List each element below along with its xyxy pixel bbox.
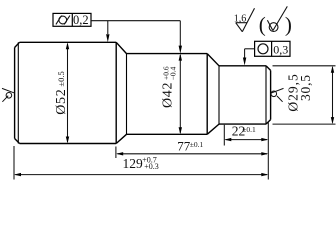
cylinder 3 top-right chamfer xyxy=(266,66,271,71)
cylinder 1 right shoulder face xyxy=(115,42,117,143)
rest-of-surfaces symbol with circle xyxy=(267,6,287,31)
roughness machining symbol xyxy=(236,8,255,31)
dimension line D42 xyxy=(179,55,181,133)
svg-text:Ø42: Ø42 xyxy=(160,82,175,108)
arrowhead D30.5 top xyxy=(331,66,334,73)
arrowhead 129 right xyxy=(261,173,268,176)
cylinder 1 left end face xyxy=(14,48,16,139)
dimension line 129 xyxy=(15,174,267,176)
arrowhead 22 left xyxy=(224,138,231,141)
arrowhead 77 left xyxy=(116,152,123,155)
cylinder 3 bottom edge xyxy=(219,123,266,125)
cylinder 2 bottom edge xyxy=(127,133,208,135)
svg-text:129: 129 xyxy=(123,156,144,171)
circularity tolerance frame xyxy=(255,41,290,56)
arrowhead D30.5 bottom xyxy=(331,117,334,124)
cylindricity tolerance frame xyxy=(53,13,91,26)
cylinder 2 right shoulder face xyxy=(206,54,208,135)
cylinder 3 chamfer edge line xyxy=(265,66,267,124)
cone 2-3 top slant xyxy=(207,54,219,66)
cylinder 1 bottom-left chamfer xyxy=(15,139,20,144)
extension line right common xyxy=(267,122,269,180)
svg-text:0,2: 0,2 xyxy=(73,13,89,27)
cone 1-2 top slant xyxy=(116,42,126,53)
extension line left of 22 dim xyxy=(223,125,225,146)
svg-text:0,3: 0,3 xyxy=(273,42,288,56)
arrowhead 22 right xyxy=(261,138,268,141)
svg-text:): ) xyxy=(285,12,292,36)
roughness symbol on left end face xyxy=(2,88,15,101)
svg-text:±0.1: ±0.1 xyxy=(242,125,256,134)
arrowhead 77 right xyxy=(261,152,268,155)
arrowhead D52 top xyxy=(66,42,69,49)
cylinder 1 top edge xyxy=(20,41,117,43)
svg-text:±0.1: ±0.1 xyxy=(190,140,204,149)
leader arrowhead on cylinder 1 xyxy=(106,34,109,42)
dimension text D29.5 xyxy=(285,73,300,111)
cylinder 1 top-left chamfer xyxy=(15,42,20,47)
cylinder 1 bottom edge xyxy=(20,143,117,145)
svg-text:30,5: 30,5 xyxy=(298,74,313,101)
arrowhead D42 bottom xyxy=(179,127,182,134)
svg-text:−0.4: −0.4 xyxy=(168,66,177,80)
leader arrowhead on cylinder 2 xyxy=(179,46,182,54)
dimension line D30.5 xyxy=(332,67,334,122)
extension line bottom right D30.5 xyxy=(273,123,336,125)
circularity leader xyxy=(245,49,255,58)
cylinder 3 left edge line xyxy=(218,66,220,124)
cylinder 3 bottom-right chamfer xyxy=(266,120,271,125)
cylinder 3 right end face xyxy=(270,70,272,119)
cylinder 1 chamfer edge line xyxy=(17,42,19,143)
cone 2-3 bottom slant xyxy=(207,124,219,134)
cylindricity symbol xyxy=(56,16,70,25)
cylinder 3 top edge xyxy=(219,65,266,67)
cylinder 2 left edge line xyxy=(126,54,128,135)
extension line left of 129 dim xyxy=(13,146,15,180)
svg-text:(: ( xyxy=(259,12,266,36)
svg-text:Ø52: Ø52 xyxy=(54,89,69,115)
svg-text:+0.3: +0.3 xyxy=(144,162,159,171)
arrowhead 129 left xyxy=(14,173,21,176)
dimension line 22 xyxy=(226,139,268,141)
extension line left of 77 dim xyxy=(115,147,117,159)
leader arrowhead on cylinder 3 xyxy=(243,58,246,66)
cone 1-2 bottom slant xyxy=(116,134,126,143)
roughness symbol on right end face xyxy=(271,88,284,101)
circularity symbol xyxy=(258,44,268,54)
arrowhead D52 bottom xyxy=(66,137,69,144)
svg-text:77: 77 xyxy=(177,138,191,153)
extension line top right D30.5 xyxy=(273,65,336,67)
dimension line 77 xyxy=(117,153,267,155)
dimension text D30.5 xyxy=(298,74,313,101)
dimension text D52 xyxy=(54,89,69,115)
dimension text D42 with tolerances xyxy=(160,82,175,108)
cylindricity leader xyxy=(91,21,180,46)
cylinder 2 top edge xyxy=(127,53,208,55)
svg-text:±0.5: ±0.5 xyxy=(56,71,66,86)
arrowhead D42 top xyxy=(179,54,182,61)
dimension line D52 xyxy=(67,44,69,142)
svg-text:Ø29,5: Ø29,5 xyxy=(285,73,300,111)
